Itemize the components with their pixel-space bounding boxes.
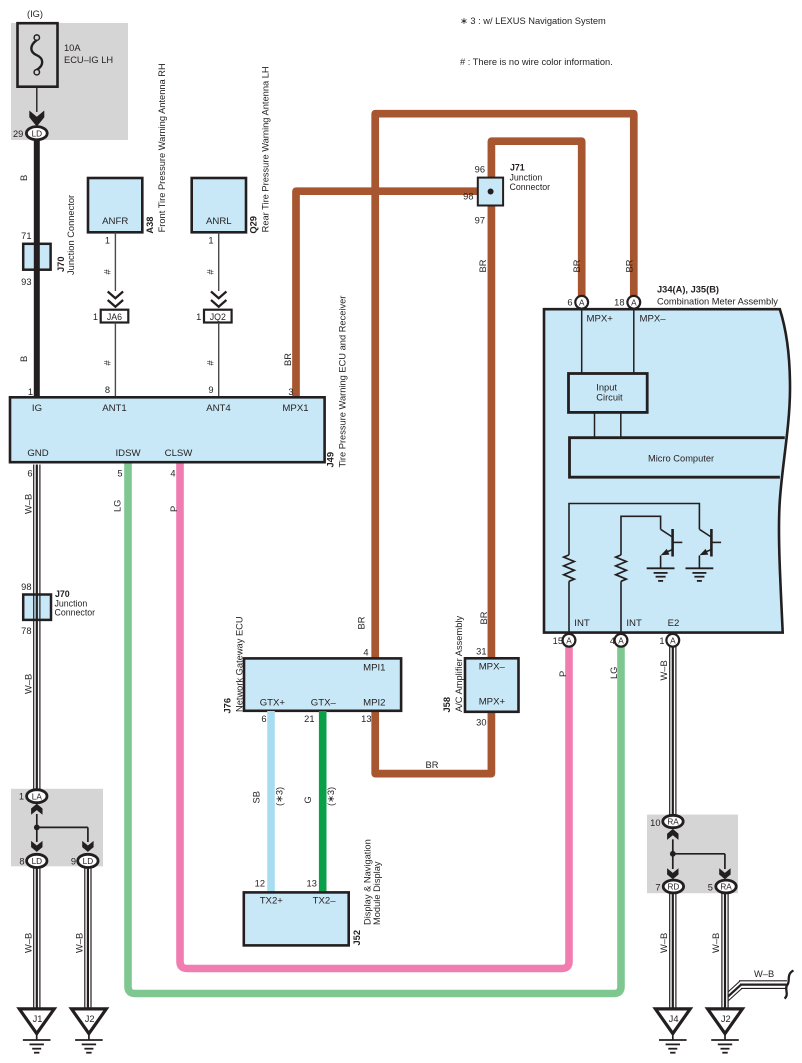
svg-text:MPX+: MPX+ (587, 314, 614, 325)
svg-text:A/C Amplifier Assembly: A/C Amplifier Assembly (454, 616, 464, 712)
svg-text:30: 30 (476, 718, 486, 728)
svg-text:Circuit: Circuit (596, 393, 623, 403)
svg-text:Module Display: Module Display (372, 861, 382, 925)
svg-text:LD: LD (32, 129, 43, 138)
svg-text:A38: A38 (145, 217, 155, 234)
svg-text:J52: J52 (352, 930, 362, 946)
svg-text:9: 9 (71, 856, 76, 866)
svg-text:1: 1 (28, 387, 33, 397)
svg-text:J76: J76 (223, 698, 233, 714)
wires resistors to pins (568, 581, 570, 633)
svg-text:6: 6 (261, 714, 266, 724)
svg-text:CLSW: CLSW (165, 448, 194, 459)
svg-text:RA: RA (667, 818, 679, 827)
junction connector J70 box (upper) (23, 244, 50, 270)
svg-text:7: 7 (655, 882, 660, 892)
svg-text:6: 6 (27, 469, 32, 479)
svg-text:1: 1 (196, 312, 201, 322)
connector arrow down (29, 111, 44, 127)
svg-text:A: A (618, 637, 624, 646)
connector oval RA 5 (716, 880, 736, 893)
connector oval RD 7 (663, 880, 683, 893)
svg-text:15: 15 (553, 636, 563, 646)
svg-text:MPX1: MPX1 (282, 403, 308, 414)
svg-text:6: 6 (567, 298, 572, 308)
connector arrow down to RD 7 (667, 868, 678, 879)
wire JA6 to J49 (114, 323, 116, 399)
connector arrow down to RA 5 (719, 868, 730, 879)
fuse 10A ECU-IG LH box (18, 23, 58, 86)
svg-text:13: 13 (361, 714, 371, 724)
connector arrow down to LD 9 (82, 841, 93, 852)
svg-text:P: P (558, 671, 568, 677)
svg-text:MPX+: MPX+ (479, 697, 506, 708)
connector oval LD 8 (27, 854, 47, 867)
wire W-B to J1 (34, 867, 40, 1008)
svg-text:TX2+: TX2+ (260, 895, 284, 906)
svg-text:96: 96 (475, 165, 485, 175)
wire B thick black (34, 140, 40, 399)
svg-text:Combination Meter Assembly: Combination Meter Assembly (657, 297, 778, 307)
svg-text:LD: LD (32, 857, 43, 866)
svg-text:Front Tire Pressure Warning An: Front Tire Pressure Warning Antenna RH (157, 63, 167, 232)
wire BR from J76 MPI2 to J58 pin 30 (375, 711, 491, 774)
svg-text:12: 12 (255, 879, 265, 889)
svg-text:J34(A), J35(B): J34(A), J35(B) (657, 285, 719, 295)
svg-text:J70: J70 (56, 256, 66, 272)
gray fuse block background (11, 23, 128, 140)
connector arrow up (667, 829, 678, 840)
svg-text:BR: BR (572, 259, 582, 272)
svg-text:4: 4 (170, 469, 175, 479)
branch wire stem (36, 814, 38, 827)
svg-text:GTX+: GTX+ (260, 697, 286, 708)
svg-text:SB: SB (252, 791, 262, 803)
connector JQ2 (204, 310, 232, 323)
svg-text:Rear Tire Pressure Warning Ant: Rear Tire Pressure Warning Antenna LH (261, 66, 271, 232)
wire W-B RA to J2 (722, 893, 728, 1008)
svg-text:93: 93 (21, 277, 31, 287)
svg-text:5: 5 (117, 469, 122, 479)
svg-text:98: 98 (21, 582, 31, 592)
svg-text:#: # (102, 360, 112, 366)
svg-text:B: B (19, 175, 29, 181)
svg-text:13: 13 (307, 879, 317, 889)
svg-text:A: A (566, 637, 572, 646)
svg-text:Connector: Connector (510, 182, 551, 192)
svg-text:IG: IG (32, 403, 42, 414)
svg-text:A: A (579, 299, 585, 308)
svg-text:A: A (631, 299, 637, 308)
svg-text:JA6: JA6 (107, 312, 122, 322)
ground J4 (655, 1009, 690, 1053)
fuse element curve (31, 40, 42, 70)
svg-text:GND: GND (27, 448, 48, 459)
junction connector J71 (478, 178, 503, 206)
junction connector J70 box (lower) (23, 595, 51, 620)
W-B branch to right with diagonals (728, 981, 787, 1001)
svg-text:LD: LD (83, 857, 94, 866)
svg-text:W–B: W–B (659, 933, 669, 953)
antenna ANRL box Q29 (192, 178, 246, 232)
transistor Q1 (661, 529, 683, 568)
wire LG from IDSW to meter INT 4 (128, 464, 621, 994)
ECU J49 box (10, 397, 325, 462)
svg-text:RD: RD (667, 883, 679, 892)
svg-text:Network Gateway ECU: Network Gateway ECU (235, 616, 245, 712)
svg-text:W–B: W–B (659, 660, 669, 680)
A/C amplifier J58 box (465, 658, 519, 712)
svg-text:E2: E2 (668, 618, 680, 629)
svg-text:Tire Pressure Warning ECU and: Tire Pressure Warning ECU and Receiver (338, 296, 348, 468)
branch junction dot (34, 825, 40, 831)
svg-text:J2: J2 (721, 1014, 731, 1024)
branch horizontal wire (37, 826, 88, 828)
svg-text:8: 8 (105, 385, 110, 395)
gray branch box (bottom left) (11, 789, 103, 867)
branch stem (672, 839, 674, 854)
svg-text:Connector: Connector (55, 608, 96, 618)
svg-text:Junction Connector: Junction Connector (66, 195, 76, 275)
svg-text:Q29: Q29 (249, 216, 259, 234)
wire ANRL to JQ2 (218, 232, 220, 291)
connector oval RA 10 (663, 815, 683, 827)
svg-text:Micro Computer: Micro Computer (648, 454, 714, 464)
svg-text:21: 21 (304, 714, 314, 724)
svg-text:INT: INT (626, 618, 642, 629)
svg-text:W–B: W–B (24, 494, 34, 514)
wire BR from J71 top to meter pin 6 (491, 141, 581, 296)
svg-text:9: 9 (208, 385, 213, 395)
resistor R INT 4 (616, 555, 627, 581)
connector JA6 (101, 310, 129, 323)
display & navigation module J52 box (244, 892, 349, 945)
svg-text:W–B: W–B (754, 969, 774, 979)
wire W-B to J2 (85, 867, 91, 1008)
svg-text:4: 4 (363, 648, 368, 658)
svg-text:W–B: W–B (711, 933, 721, 953)
wire BR long top run to meter pin 18 (375, 114, 634, 658)
svg-text:8: 8 (19, 856, 24, 866)
svg-text:J1: J1 (33, 1014, 43, 1024)
svg-text:1: 1 (19, 792, 24, 802)
fuse terminal circles (34, 35, 39, 40)
svg-text:LG: LG (113, 500, 123, 512)
internal wires input circuit to micro computer (594, 412, 596, 437)
network gateway ECU J76 box (244, 658, 401, 710)
wire W-B RD to J4 (670, 893, 676, 1008)
connector chevrons above JQ2 (211, 292, 226, 299)
svg-text:5: 5 (708, 882, 713, 892)
svg-text:#: # (102, 269, 112, 275)
wire W-B from E2 to branch (670, 647, 676, 816)
svg-text:A: A (670, 637, 676, 646)
connector chevrons above JA6 (108, 292, 123, 299)
svg-text:J70: J70 (55, 589, 70, 599)
wire BR from MPX1 up to J71 (296, 191, 478, 399)
wire P from CLSW to meter INT 15 (180, 464, 569, 969)
svg-text:LG: LG (609, 667, 619, 679)
connector oval LA (27, 790, 47, 803)
svg-text:(IG): (IG) (27, 9, 43, 19)
svg-text:10A: 10A (64, 43, 81, 53)
svg-text:J4: J4 (669, 1014, 679, 1024)
svg-text:(∗3): (∗3) (275, 787, 285, 806)
svg-text:J71: J71 (510, 163, 525, 173)
internal wire MPX+ (581, 311, 583, 374)
ground J2 (right) (708, 1009, 743, 1053)
antenna ANFR box A38 (88, 178, 142, 232)
svg-text:RA: RA (720, 883, 732, 892)
resistor R INT 15 (564, 555, 575, 581)
svg-text:J49: J49 (326, 452, 336, 468)
svg-text:MPI1: MPI1 (363, 663, 385, 674)
svg-text:W–B: W–B (24, 933, 34, 953)
svg-text:29: 29 (13, 129, 23, 139)
svg-text:GTX–: GTX– (311, 697, 337, 708)
svg-text:1: 1 (208, 236, 213, 246)
svg-text:Display & Navigation: Display & Navigation (363, 839, 373, 925)
svg-text:1: 1 (105, 236, 110, 246)
transistor Q2 (699, 529, 721, 568)
branch continuation squiggle (785, 971, 794, 999)
wire SB from GTX+ to TX2+ (267, 711, 275, 893)
svg-text:G: G (303, 796, 313, 803)
svg-text:LA: LA (32, 792, 43, 801)
svg-text:TX2–: TX2– (313, 895, 337, 906)
svg-text:BR: BR (479, 611, 489, 624)
connector oval LD 9 (78, 854, 98, 867)
branch horizontal wire (673, 853, 725, 855)
svg-text:ANT4: ANT4 (206, 403, 231, 414)
svg-text:B: B (19, 356, 29, 362)
svg-text:P: P (169, 506, 179, 512)
wire JQ2 to J49 (218, 323, 220, 399)
svg-text:31: 31 (476, 647, 486, 657)
combination meter assembly box J34(A) J35(B) (544, 309, 790, 632)
wire from fuse to connector LD (36, 87, 38, 112)
branch junction dot (670, 851, 676, 857)
svg-text:BR: BR (283, 353, 293, 366)
internal circuit wires upper (569, 504, 699, 555)
svg-text:98: 98 (463, 192, 473, 202)
svg-text:IDSW: IDSW (115, 448, 141, 459)
svg-text:#: # (206, 360, 216, 366)
wire G from GTX- to TX2- (319, 711, 327, 893)
svg-text:#: # (206, 269, 216, 275)
wire ANFR to JA6 (114, 232, 116, 291)
wire W-B from GND down (34, 465, 40, 791)
ground symbol Q1 (647, 568, 675, 581)
svg-text:(∗3): (∗3) (326, 787, 336, 806)
ground J1 (19, 1009, 54, 1053)
svg-text:BR: BR (357, 616, 367, 629)
ground J2 (72, 1009, 107, 1053)
connector arrow up (31, 804, 42, 815)
svg-text:ANFR: ANFR (102, 216, 128, 227)
svg-text:1: 1 (93, 312, 98, 322)
svg-text:18: 18 (614, 298, 624, 308)
svg-text:MPX–: MPX– (479, 662, 506, 673)
svg-text:97: 97 (475, 216, 485, 226)
svg-text:J58: J58 (442, 697, 452, 713)
wire BR from J71 bottom to J58 pin 31 (488, 205, 496, 658)
input circuit box (569, 374, 648, 413)
svg-text:J2: J2 (85, 1014, 95, 1024)
ground symbol Q2 (686, 568, 714, 581)
svg-text:10: 10 (650, 818, 660, 828)
svg-text:BR: BR (426, 760, 439, 770)
svg-text:ANRL: ANRL (206, 216, 232, 227)
svg-text:JQ2: JQ2 (210, 312, 226, 322)
gray branch box (bottom right) (647, 815, 738, 894)
svg-text:W–B: W–B (75, 933, 85, 953)
svg-text:MPI2: MPI2 (363, 697, 385, 708)
svg-text:BR: BR (625, 259, 635, 272)
svg-text:3: 3 (288, 387, 293, 397)
svg-text:# : There is no wire color inf: # : There is no wire color information. (460, 57, 613, 67)
svg-text:MPX–: MPX– (640, 314, 667, 325)
svg-text:BR: BR (478, 259, 488, 272)
connector arrow down to LD 8 (31, 841, 42, 852)
svg-text:71: 71 (21, 231, 31, 241)
micro computer box (570, 438, 785, 478)
svg-text:INT: INT (574, 618, 590, 629)
svg-text:ECU–IG LH: ECU–IG LH (64, 55, 113, 65)
svg-text:W–B: W–B (24, 674, 34, 694)
svg-text:ANT1: ANT1 (102, 403, 127, 414)
svg-text:∗ 3 : w/ LEXUS Navigation Syst: ∗ 3 : w/ LEXUS Navigation System (460, 16, 606, 26)
svg-text:1: 1 (659, 636, 664, 646)
svg-text:Junction: Junction (510, 173, 543, 183)
internal wire MPX- (633, 311, 635, 374)
svg-text:78: 78 (21, 626, 31, 636)
svg-text:Input: Input (596, 383, 617, 393)
connector oval LD (26, 127, 47, 140)
